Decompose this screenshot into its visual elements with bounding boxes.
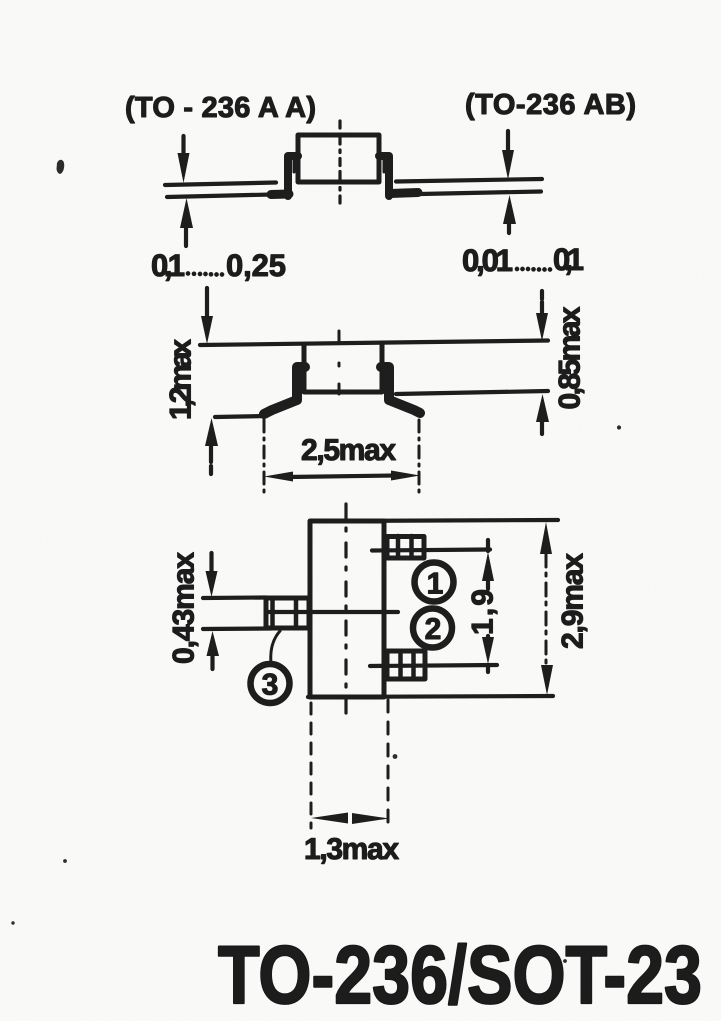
circle label 2	[413, 609, 452, 648]
view2 body outline	[304, 345, 382, 392]
view3 2,9 top arrow	[540, 522, 552, 554]
view3 bottom extension line	[308, 696, 553, 697]
view3 1,9 top arrow	[482, 552, 494, 581]
view3 0,43 extension line top	[203, 595, 266, 600]
view2 top reference line	[200, 341, 548, 346]
view1 right lead inner line	[383, 158, 386, 172]
view3 1,3 extension line left	[310, 703, 313, 828]
view3 1,9 dimension line	[486, 540, 490, 672]
view3 0,43 up arrow	[210, 656, 214, 669]
pin 2 pad	[387, 651, 425, 679]
view1 body outline	[298, 135, 379, 182]
circle label 3	[251, 664, 290, 703]
pin 3 pad	[266, 598, 309, 628]
dim text 0,1...0,25	[151, 248, 286, 283]
view2 2,5max left arrow	[264, 472, 293, 482]
view1 centerline	[338, 121, 341, 203]
speckles	[11, 160, 621, 963]
view1 left lead inner line	[293, 158, 296, 172]
view2 centerline	[338, 331, 341, 396]
view3 vertical centerline	[344, 504, 347, 714]
view1 seating line right bottom	[420, 192, 541, 195]
view2 2,5max extension line left	[263, 420, 266, 492]
view3 2,9 dimension line	[545, 554, 548, 663]
view3 body outline	[310, 521, 384, 697]
view3 top extension line	[310, 520, 558, 521]
view1 left down arrow	[181, 136, 185, 153]
view3 1,3 dimension arrows	[311, 813, 348, 824]
view2 body-bottom reference line right	[396, 391, 548, 394]
view3 1,3 extension line right	[387, 700, 390, 828]
view3 0,43 extension line bottom	[203, 626, 271, 631]
view2 2,5max extension line right	[418, 420, 421, 493]
view3 pin1 center extension line	[372, 550, 490, 551]
view1 left up arrow	[184, 228, 188, 246]
view2 right lead	[381, 367, 420, 413]
view3 2,9 bottom arrow	[541, 665, 553, 695]
view2 2,5max dimension line	[288, 476, 396, 478]
paper noise overlay	[0, 0, 1, 1]
view1 right down arrow	[506, 131, 510, 150]
view2 left up arrow (1,2max)	[209, 446, 213, 474]
view2 left down arrow (1,2max)	[205, 288, 209, 316]
view2 right down arrow (0,85max)	[540, 291, 544, 313]
view2 left lead	[264, 367, 305, 414]
circle label 1	[415, 563, 454, 602]
view3 1,9 bottom arrow	[482, 637, 494, 664]
view2 2,5max right arrow	[391, 471, 420, 481]
view1 seating line right top	[396, 179, 542, 182]
leader line pin3 to circle3	[271, 631, 280, 663]
view1 seating line left top	[165, 183, 276, 186]
view1 right lead	[379, 156, 389, 196]
view1 seating line left bottom	[167, 195, 272, 198]
dim text 0,01...0,1	[462, 242, 584, 278]
view2 seating line left	[215, 416, 266, 417]
view1 left lead	[288, 156, 298, 196]
pin 1 pad	[387, 536, 424, 558]
view2 right up arrow (0,85max)	[540, 422, 544, 434]
view3 pin3 centerline	[267, 610, 398, 614]
view1 right up arrow	[507, 224, 511, 233]
view3 0,43 down arrow	[209, 553, 213, 571]
view3 pin2 center extension line	[370, 665, 497, 666]
